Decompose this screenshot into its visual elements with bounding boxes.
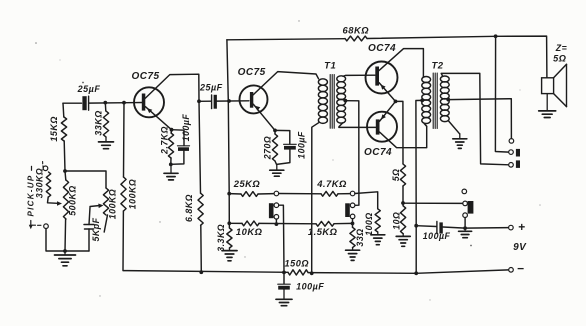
- svg-text:2.7KΩ: 2.7KΩ: [159, 126, 169, 155]
- svg-text:3.3KΩ: 3.3KΩ: [216, 224, 226, 252]
- svg-text:25µF: 25µF: [199, 82, 223, 92]
- svg-text:OC74: OC74: [364, 147, 392, 158]
- svg-text:270Ω: 270Ω: [262, 136, 272, 161]
- svg-text:33KΩ: 33KΩ: [94, 110, 104, 136]
- svg-text:100µF: 100µF: [423, 231, 451, 241]
- svg-text:OC75: OC75: [238, 67, 266, 78]
- svg-text:100KΩ: 100KΩ: [128, 179, 138, 209]
- svg-text:100µF: 100µF: [297, 131, 307, 159]
- svg-text:OC74: OC74: [368, 43, 396, 54]
- svg-text:100KΩ: 100KΩ: [108, 189, 118, 219]
- svg-text:150Ω: 150Ω: [285, 259, 310, 269]
- svg-text:5Ω: 5Ω: [553, 53, 566, 63]
- svg-text:68KΩ: 68KΩ: [343, 24, 370, 35]
- svg-text:9V: 9V: [513, 242, 527, 253]
- svg-text:1.5KΩ: 1.5KΩ: [308, 226, 338, 237]
- svg-text:−: −: [517, 262, 525, 276]
- svg-text:100µF: 100µF: [296, 282, 324, 292]
- svg-text:+: +: [518, 220, 526, 234]
- svg-text:100µF: 100µF: [181, 114, 191, 142]
- svg-text:25µF: 25µF: [77, 84, 101, 94]
- svg-text:PICK-UP: PICK-UP: [26, 175, 35, 217]
- svg-text:100Ω: 100Ω: [364, 212, 374, 236]
- svg-text:T1: T1: [324, 61, 336, 72]
- svg-text:10Ω: 10Ω: [392, 212, 402, 230]
- svg-text:25KΩ: 25KΩ: [233, 178, 261, 189]
- svg-text:5Ω: 5Ω: [391, 169, 401, 182]
- svg-text:330KΩ: 330KΩ: [34, 168, 44, 198]
- svg-text:Z=: Z=: [555, 43, 568, 53]
- svg-text:10KΩ: 10KΩ: [236, 226, 263, 237]
- svg-text:5KpF: 5KpF: [91, 217, 101, 241]
- svg-text:15KΩ: 15KΩ: [49, 116, 59, 142]
- svg-text:OC75: OC75: [131, 71, 159, 82]
- svg-text:6.8KΩ: 6.8KΩ: [184, 194, 194, 222]
- svg-text:4.7KΩ: 4.7KΩ: [316, 178, 347, 189]
- svg-text:500KΩ: 500KΩ: [68, 185, 78, 215]
- svg-text:T2: T2: [431, 60, 443, 71]
